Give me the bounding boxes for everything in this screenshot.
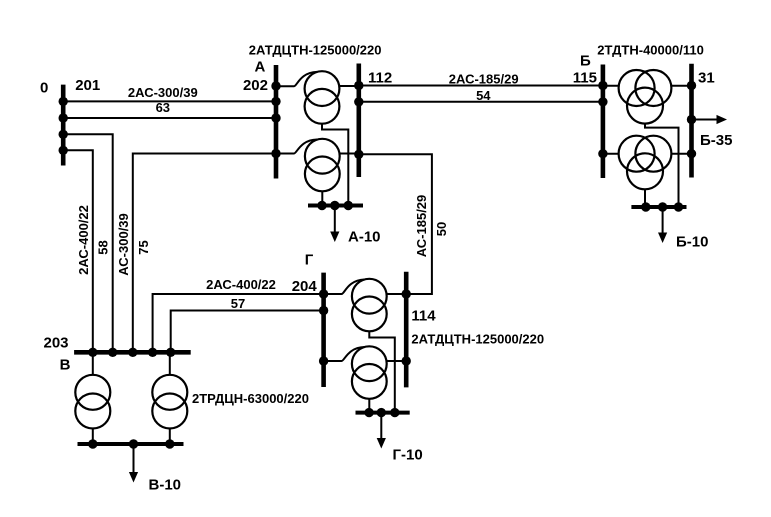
svg-text:2ТДТН-40000/110: 2ТДТН-40000/110 (597, 43, 704, 58)
svg-text:203: 203 (44, 335, 69, 352)
svg-text:А: А (255, 58, 266, 75)
svg-text:Г-10: Г-10 (393, 447, 423, 464)
svg-text:2АС-185/29: 2АС-185/29 (449, 72, 519, 87)
svg-text:115: 115 (573, 70, 597, 87)
svg-text:63: 63 (156, 100, 170, 115)
svg-text:201: 201 (75, 77, 100, 94)
svg-text:50: 50 (434, 222, 449, 236)
svg-text:Б-35: Б-35 (700, 132, 732, 149)
svg-text:2АС-300/39: 2АС-300/39 (128, 85, 198, 100)
svg-text:31: 31 (698, 70, 715, 87)
svg-text:Г: Г (305, 252, 314, 269)
svg-text:202: 202 (243, 77, 268, 94)
svg-text:57: 57 (231, 296, 245, 311)
svg-text:Б: Б (580, 53, 591, 70)
svg-text:2ТРДЦН-63000/220: 2ТРДЦН-63000/220 (192, 391, 309, 406)
svg-text:АС-300/39: АС-300/39 (116, 213, 131, 276)
svg-text:Б-10: Б-10 (676, 234, 708, 251)
svg-text:2АТДЦТН-125000/220: 2АТДЦТН-125000/220 (249, 43, 382, 58)
svg-text:75: 75 (136, 240, 151, 254)
svg-text:А-10: А-10 (348, 229, 381, 246)
svg-text:54: 54 (476, 88, 491, 103)
svg-text:204: 204 (292, 278, 318, 295)
svg-text:В-10: В-10 (149, 477, 182, 494)
svg-text:112: 112 (368, 70, 392, 87)
svg-text:АС-185/29: АС-185/29 (414, 195, 429, 258)
svg-text:В: В (60, 357, 71, 374)
svg-text:58: 58 (96, 240, 111, 254)
svg-text:2АТДЦТН-125000/220: 2АТДЦТН-125000/220 (411, 332, 544, 347)
svg-text:2АС-400/22: 2АС-400/22 (76, 205, 91, 275)
svg-text:114: 114 (411, 308, 436, 325)
svg-text:0: 0 (40, 80, 48, 97)
svg-text:2АС-400/22: 2АС-400/22 (206, 277, 276, 292)
